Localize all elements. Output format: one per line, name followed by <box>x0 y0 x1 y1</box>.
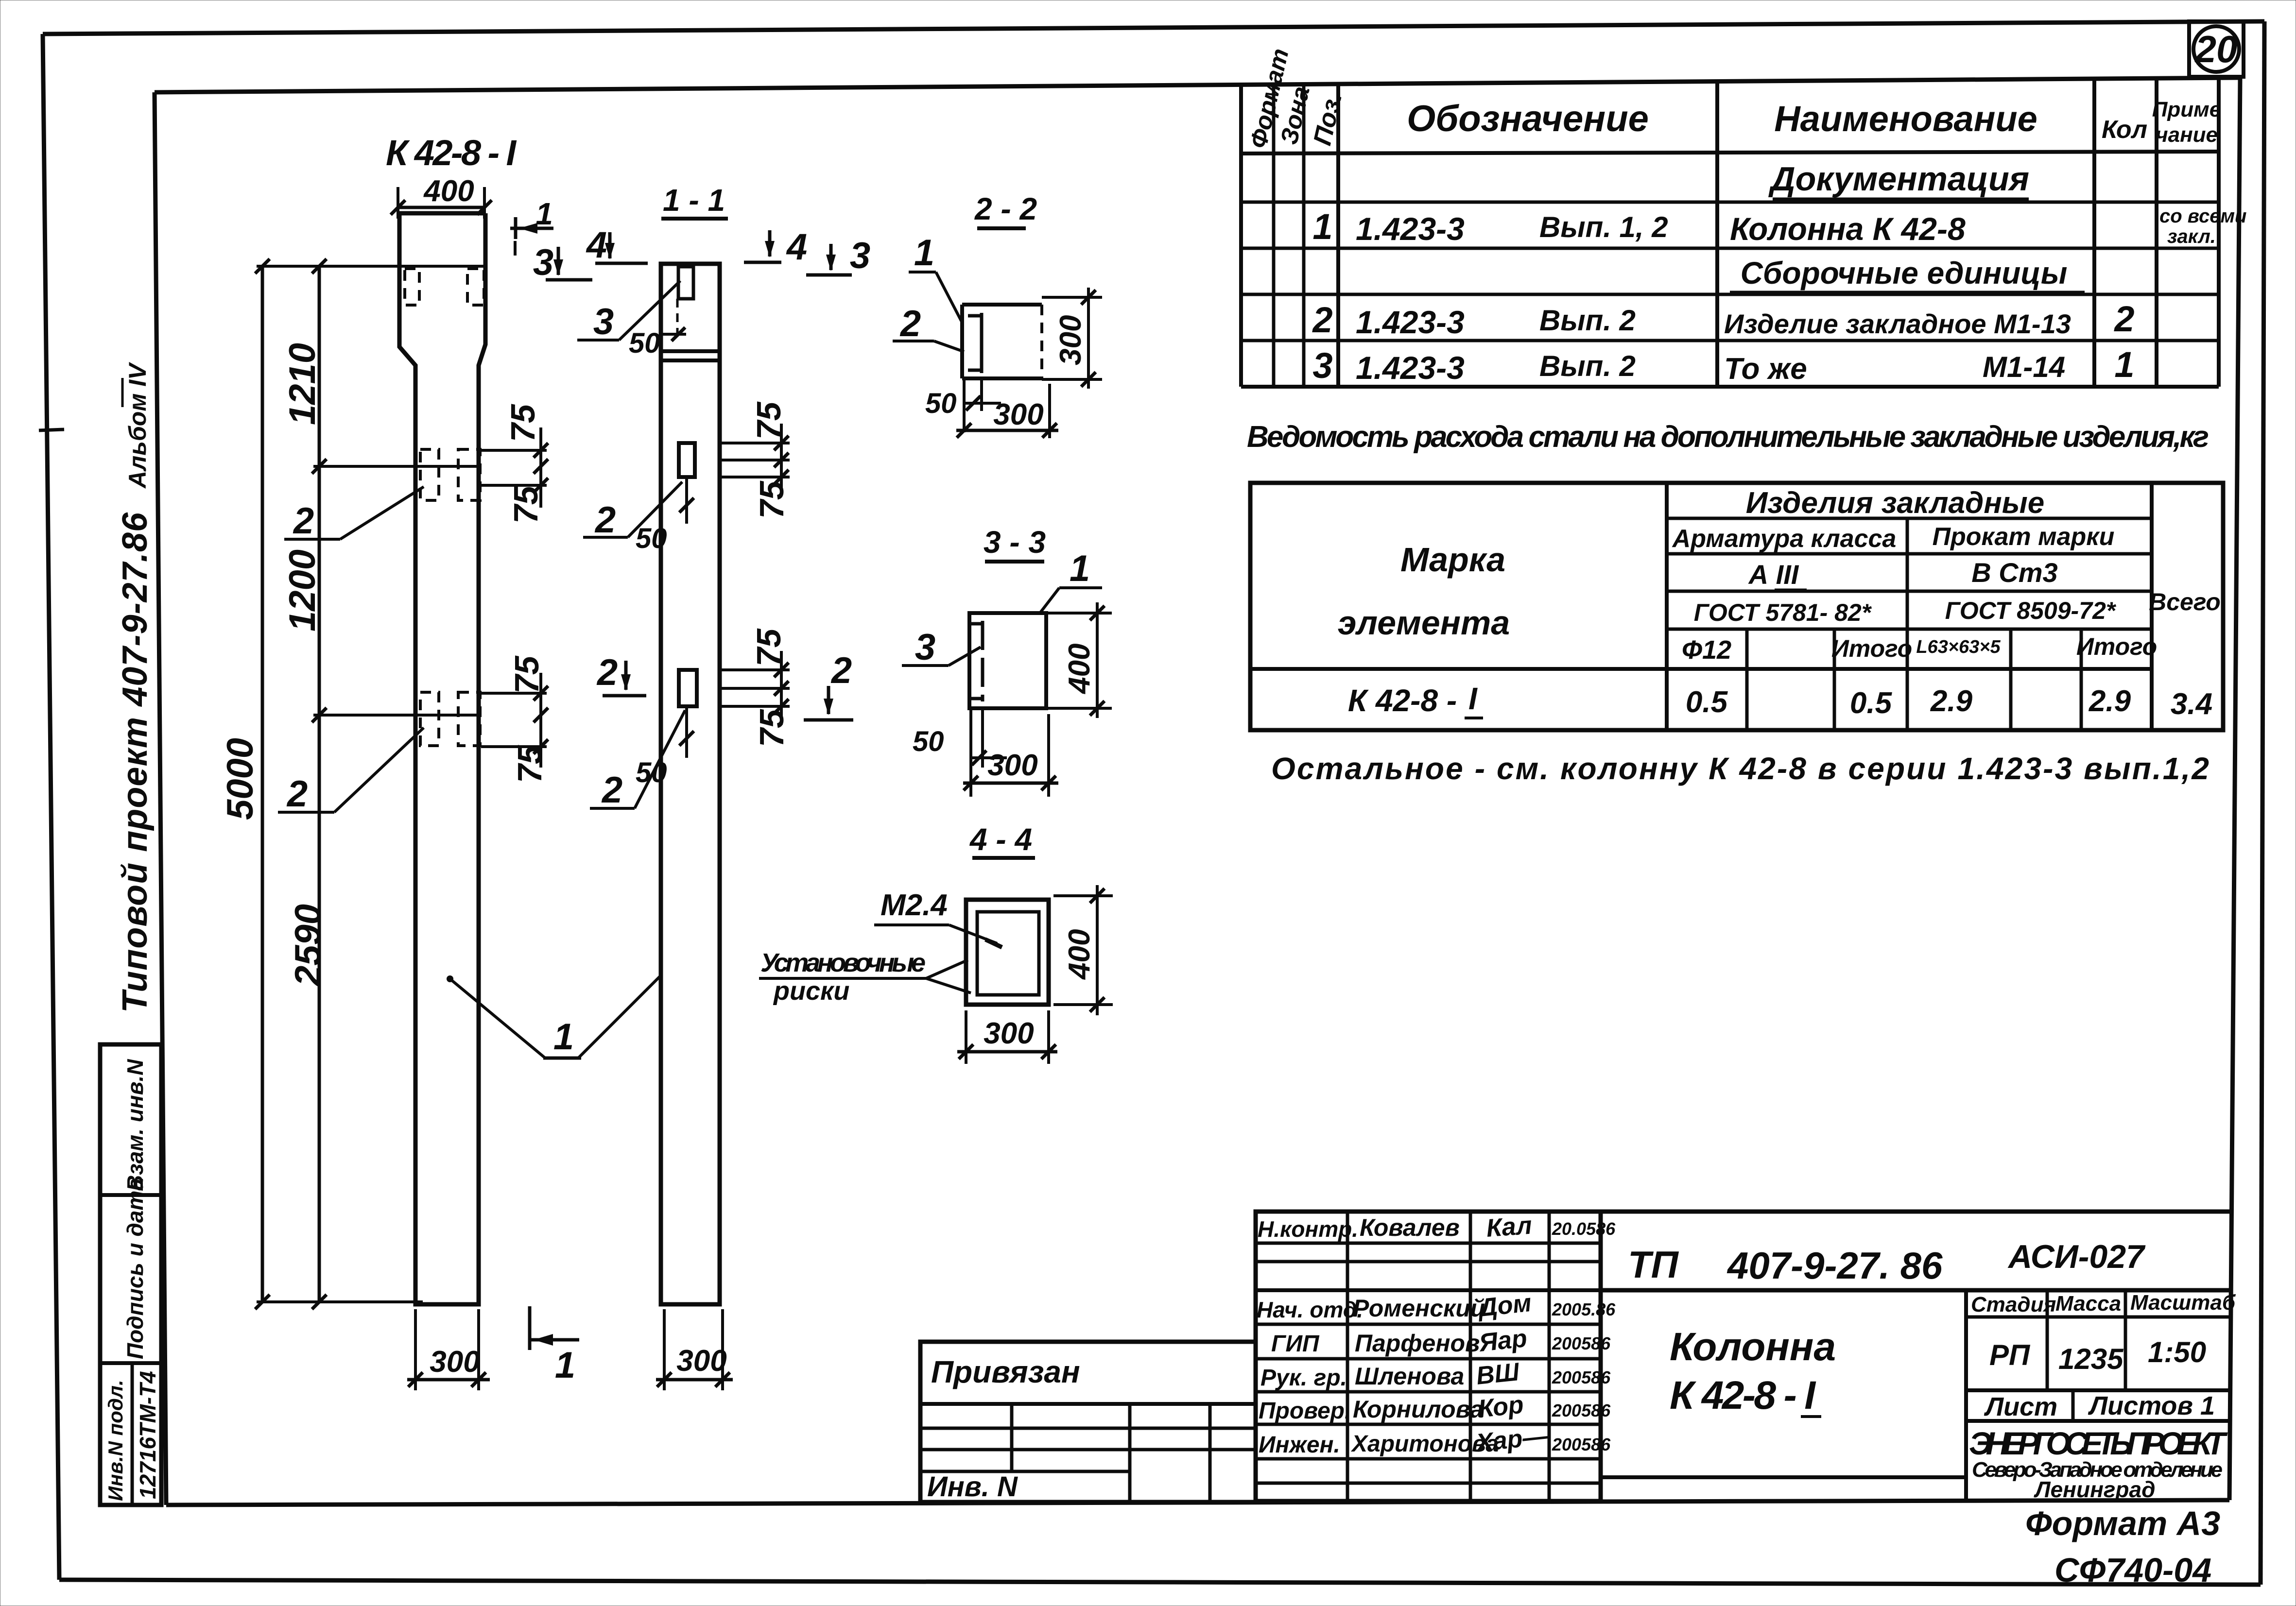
svg-text:4 - 4: 4 - 4 <box>969 822 1032 857</box>
section 1-1 label <box>661 183 728 219</box>
steel table <box>1250 483 2223 730</box>
svg-text:Документация: Документация <box>1768 160 2029 198</box>
svg-text:2: 2 <box>899 303 921 344</box>
svg-text:1.423-3: 1.423-3 <box>1356 211 1465 247</box>
svg-text:1: 1 <box>553 1016 574 1058</box>
svg-text:Яар: Яар <box>1477 1324 1528 1357</box>
signature row ГИП Парфенов <box>1271 1324 1611 1357</box>
svg-text:Ленинград: Ленинград <box>2034 1477 2156 1502</box>
svg-text:2: 2 <box>830 650 852 691</box>
dim 300 bottom section 2-2 <box>956 384 1058 438</box>
svg-text:Изделие закладное М1-13: Изделие закладное М1-13 <box>1724 308 2071 339</box>
привязан box <box>920 1342 1256 1502</box>
svg-text:300: 300 <box>984 1017 1034 1050</box>
dim 300 right section 2-2 <box>1042 288 1102 389</box>
leader 2 mid section 1-1 <box>583 482 682 541</box>
svg-text:300: 300 <box>993 398 1043 431</box>
svg-text:75: 75 <box>508 655 546 694</box>
svg-text:Итого: Итого <box>1831 635 1912 662</box>
svg-text:12716ТМ-Т4: 12716ТМ-Т4 <box>135 1371 160 1499</box>
svg-text:4: 4 <box>586 224 607 266</box>
svg-text:ЭНЕРГОСЕТЬПРОЕКТ: ЭНЕРГОСЕТЬПРОЕКТ <box>1969 1425 2228 1461</box>
dimension 400 top <box>391 174 492 219</box>
dimension line 1210 1200 2590 <box>282 259 329 1309</box>
svg-text:Ведомость расхода стали на доп: Ведомость расхода стали на дополнительны… <box>1247 420 2209 454</box>
svg-text:2005.86: 2005.86 <box>1552 1299 1616 1319</box>
svg-text:0.5: 0.5 <box>1686 685 1728 719</box>
svg-text:Типовой проект 407-9-27.86: Типовой проект 407-9-27.86 <box>116 512 155 1013</box>
svg-text:Масштаб: Масштаб <box>2130 1291 2236 1315</box>
steel table data row К 42-8-I <box>1348 681 2212 721</box>
dim 300 bottom section 3-3 <box>963 714 1058 797</box>
svg-text:4: 4 <box>786 226 807 268</box>
svg-text:Альбом IV: Альбом IV <box>124 362 151 489</box>
leader 3 section 1-1 <box>577 281 680 342</box>
svg-text:М1-14: М1-14 <box>1983 351 2065 383</box>
section mark 4 left <box>586 224 648 266</box>
svg-text:со всеми: со всеми <box>2159 205 2246 227</box>
svg-text:Всего: Всего <box>2149 588 2221 615</box>
svg-text:Наименование: Наименование <box>1774 99 2037 139</box>
svg-text:Марка: Марка <box>1400 541 1505 579</box>
svg-text:Лист: Лист <box>1984 1392 2057 1421</box>
leader 2 mid level front view <box>284 487 424 542</box>
section mark 2 right <box>804 650 853 720</box>
svg-text:К 42-8 -: К 42-8 - <box>1348 683 1457 718</box>
svg-text:2 - 2: 2 - 2 <box>974 191 1037 226</box>
embedded plate top left (dashed) <box>405 269 419 305</box>
svg-text:I: I <box>1468 681 1478 716</box>
leader 2 lower level front view <box>278 728 424 815</box>
svg-text:Подпись и дата: Подпись и дата <box>122 1178 148 1359</box>
svg-text:2: 2 <box>286 773 308 815</box>
svg-text:Обозначение: Обозначение <box>1407 98 1649 139</box>
svg-text:Формат А3: Формат А3 <box>2025 1504 2220 1542</box>
level line bottom <box>257 1300 423 1303</box>
section 1-1 column outline <box>661 264 720 1304</box>
svg-text:АСИ-027: АСИ-027 <box>2007 1238 2146 1275</box>
svg-text:2: 2 <box>293 500 314 542</box>
svg-text:3: 3 <box>593 301 614 342</box>
svg-text:2: 2 <box>594 499 616 541</box>
svg-text:200586: 200586 <box>1552 1333 1611 1353</box>
dim 75 75 at mid level <box>479 404 548 524</box>
section 3-3 body <box>969 613 1046 708</box>
svg-text:Вып. 1, 2: Вып. 1, 2 <box>1539 211 1668 243</box>
svg-text:Ф12: Ф12 <box>1682 635 1731 665</box>
svg-text:50: 50 <box>925 388 957 419</box>
dim 75 75 at lower level <box>479 655 549 783</box>
svg-text:Н.контр.: Н.контр. <box>1258 1216 1358 1242</box>
section 1-1 top embedded plate <box>677 267 693 340</box>
svg-text:Кор: Кор <box>1477 1390 1525 1423</box>
svg-text:1: 1 <box>555 1345 575 1386</box>
svg-text:Ковалев: Ковалев <box>1360 1214 1460 1241</box>
svg-text:Поз.: Поз. <box>1308 89 1347 148</box>
svg-text:Стадия: Стадия <box>1971 1293 2056 1316</box>
svg-text:1: 1 <box>914 232 934 273</box>
svg-text:ГОСТ 5781- 82*: ГОСТ 5781- 82* <box>1694 599 1872 626</box>
svg-text:1: 1 <box>1312 206 1332 247</box>
svg-text:Нач. отд.: Нач. отд. <box>1257 1297 1363 1322</box>
организация ЭНЕРГОСЕТЬПРОЕКТ <box>1969 1425 2228 1502</box>
sheet number box <box>2189 21 2244 77</box>
dim 300 bottom section 1-1 <box>656 1309 733 1390</box>
dim 75 75 mid section 1-1 <box>720 401 791 519</box>
section 2-2 body <box>962 305 1042 378</box>
svg-text:закл.: закл. <box>2167 226 2216 247</box>
svg-text:400: 400 <box>1063 644 1096 695</box>
svg-text:Хар—: Хар— <box>1473 1422 1550 1458</box>
section 1-1 lower plate <box>679 670 697 706</box>
svg-text:ТП: ТП <box>1628 1243 1679 1286</box>
svg-text:1200: 1200 <box>282 549 323 632</box>
sheet number circle 20 <box>2193 26 2239 72</box>
section mark 2 left <box>596 652 646 696</box>
dim 75 75 lower section 1-1 <box>720 628 791 747</box>
svg-text:2: 2 <box>2113 299 2134 339</box>
svg-text:ГОСТ 8509-72*: ГОСТ 8509-72* <box>1945 597 2117 624</box>
leader М2.4 <box>874 888 1002 947</box>
leader 2 section 2-2 <box>893 303 964 352</box>
svg-text:Приме: Приме <box>2152 98 2221 121</box>
svg-text:Листов 1: Листов 1 <box>2088 1391 2215 1420</box>
svg-text:3: 3 <box>915 627 935 668</box>
signature row Н.контр Ковалев <box>1258 1212 1616 1243</box>
svg-text:300: 300 <box>987 749 1037 782</box>
dimension line 5000 <box>220 259 270 1309</box>
title Колонна К 42-8-I <box>1670 1325 1836 1418</box>
specification table top right <box>1241 79 2219 387</box>
svg-text:ГИП: ГИП <box>1271 1331 1320 1357</box>
section mark 3 left <box>533 242 592 283</box>
signature table <box>1256 1212 1601 1501</box>
stadia massa masshtab values <box>1989 1336 2206 1375</box>
svg-text:Взам. инв.N: Взам. инв.N <box>122 1059 148 1191</box>
svg-text:Остальное - см. колонну К 42-: Остальное - см. колонну К 42-8 в серии 1… <box>1271 751 2209 786</box>
svg-text:Шленова: Шленова <box>1355 1363 1464 1390</box>
svg-text:3: 3 <box>1312 345 1332 386</box>
signature row Инжен Харитонова <box>1259 1422 1611 1458</box>
section 1-1 step joint double line <box>661 351 720 360</box>
embedded plate top right (dashed) <box>467 269 484 305</box>
stadia massa masshtab header <box>1966 1290 2236 1390</box>
svg-text:1: 1 <box>2114 344 2134 385</box>
leader 1 to both columns <box>447 975 661 1058</box>
steel table header А III <box>1748 559 1807 590</box>
signature row Провер Корнилова <box>1259 1390 1611 1424</box>
dim 300 bottom section 4-4 <box>957 1010 1057 1064</box>
svg-text:1235: 1235 <box>2058 1343 2124 1375</box>
spec row 1 Колонна К 42-8 <box>1312 205 2246 247</box>
svg-text:Вып. 2: Вып. 2 <box>1539 304 1636 337</box>
svg-text:Инв.N подл.: Инв.N подл. <box>104 1380 127 1501</box>
svg-text:200586: 200586 <box>1552 1367 1611 1387</box>
section 2-2 label <box>974 191 1037 228</box>
spec row Документация <box>1768 160 2029 199</box>
svg-text:75: 75 <box>750 628 788 666</box>
label Установочные риски <box>759 948 971 1006</box>
level line mid <box>313 465 481 468</box>
section mark 3 right <box>806 235 870 276</box>
svg-text:М2.4: М2.4 <box>880 888 948 922</box>
svg-text:1:50: 1:50 <box>2148 1336 2206 1368</box>
dim 50 section 2-2 <box>925 378 1001 432</box>
svg-text:1210: 1210 <box>282 343 323 425</box>
section mark 1 bottom <box>530 1306 579 1386</box>
dim 50 lower section 1-1 <box>636 706 694 788</box>
spec row Сборочные единицы <box>1730 256 2085 292</box>
svg-text:Масса: Масса <box>2055 1292 2121 1316</box>
svg-text:То же: То же <box>1724 352 1807 386</box>
svg-text:75: 75 <box>753 480 791 519</box>
section 4-4 label <box>969 822 1035 858</box>
svg-text:300: 300 <box>430 1345 480 1379</box>
svg-text:400: 400 <box>423 174 474 208</box>
dim 300 bottom front view <box>407 1309 490 1390</box>
svg-text:75: 75 <box>750 401 788 440</box>
svg-text:Корнилова: Корнилова <box>1353 1396 1484 1423</box>
svg-text:20.0586: 20.0586 <box>1552 1219 1616 1239</box>
svg-text:Вып. 2: Вып. 2 <box>1539 350 1636 382</box>
svg-text:Колонна К 42-8: Колонна К 42-8 <box>1730 211 1966 247</box>
svg-text:Колонна: Колонна <box>1670 1325 1836 1369</box>
svg-text:Сборочные единицы: Сборочные единицы <box>1741 256 2068 290</box>
svg-text:Прокат марки: Прокат марки <box>1933 523 2115 551</box>
embedded plates lower level (dashed) <box>420 692 439 746</box>
svg-text:В Ст3: В Ст3 <box>1971 557 2057 588</box>
section 1-1 mid plate <box>679 443 695 477</box>
svg-text:Парфенов: Парфенов <box>1355 1330 1480 1357</box>
svg-text:Итого: Итого <box>2076 633 2157 660</box>
svg-text:2: 2 <box>1312 300 1332 340</box>
steel table header Марка элемента <box>1338 541 1510 642</box>
section 4-4 body outer <box>966 900 1049 1005</box>
svg-text:3 - 3: 3 - 3 <box>984 525 1046 560</box>
svg-text:3: 3 <box>850 235 870 276</box>
svg-text:75: 75 <box>753 709 791 747</box>
svg-text:50: 50 <box>629 327 660 359</box>
svg-text:Изделия закладные: Изделия закладные <box>1746 486 2045 520</box>
svg-text:К 42-8 - I: К 42-8 - I <box>1670 1373 1816 1418</box>
title block main area <box>1601 1212 2230 1501</box>
svg-text:Провер.: Провер. <box>1259 1398 1351 1424</box>
svg-text:Дом: Дом <box>1476 1289 1533 1322</box>
dim 50 top section <box>629 327 686 359</box>
section 3-3 embedded channel <box>971 621 983 701</box>
dim 50 section 3-3 <box>913 708 1007 797</box>
svg-text:75: 75 <box>507 485 545 524</box>
svg-text:1: 1 <box>1070 548 1090 589</box>
dim 50 mid section 1-1 <box>636 477 694 554</box>
svg-text:2.9: 2.9 <box>1930 684 1973 718</box>
svg-text:2.9: 2.9 <box>2089 684 2131 718</box>
svg-text:200586: 200586 <box>1552 1435 1611 1454</box>
leader 1 section 3-3 <box>1040 548 1102 613</box>
svg-text:1.423-3: 1.423-3 <box>1356 350 1465 386</box>
svg-text:1: 1 <box>535 196 553 231</box>
svg-text:Кол: Кол <box>2102 116 2147 144</box>
svg-text:чание: чание <box>2156 123 2218 147</box>
svg-text:5000: 5000 <box>220 738 261 820</box>
section 3-3 label <box>984 525 1046 562</box>
svg-text:СФ740-04: СФ740-04 <box>2054 1551 2211 1589</box>
svg-text:Рук. гр.: Рук. гр. <box>1260 1365 1347 1391</box>
svg-text:200586: 200586 <box>1552 1401 1611 1420</box>
svg-text:20: 20 <box>2194 28 2238 70</box>
svg-text:1 - 1: 1 - 1 <box>663 183 725 218</box>
leader 1 section 2-2 <box>909 232 962 323</box>
svg-text:2: 2 <box>601 769 622 811</box>
signature row Нач.отд Роменский <box>1257 1289 1616 1322</box>
svg-text:Привязан: Привязан <box>931 1354 1080 1389</box>
svg-text:3: 3 <box>533 242 553 283</box>
svg-text:Инв. N: Инв. N <box>927 1471 1018 1503</box>
embedded plates mid level (dashed) <box>420 449 439 500</box>
svg-text:риски: риски <box>773 976 849 1006</box>
svg-text:Кал: Кал <box>1485 1212 1533 1243</box>
svg-text:Установочные: Установочные <box>760 948 926 977</box>
svg-text:2: 2 <box>596 652 618 693</box>
section 4-4 body inner <box>977 912 1039 995</box>
section mark 1 top left <box>510 196 553 256</box>
svg-text:Инжен.: Инжен. <box>1259 1432 1340 1458</box>
spec row 2 изделие закладное М1-13 <box>1312 299 2134 340</box>
лист листов row <box>1966 1390 2230 1421</box>
svg-text:300: 300 <box>1054 315 1088 365</box>
svg-text:ВШ: ВШ <box>1475 1358 1521 1390</box>
spec row 3 То же М1-14 <box>1312 344 2134 386</box>
svg-text:РП: РП <box>1989 1339 2031 1371</box>
svg-text:50: 50 <box>636 523 667 554</box>
front view column outline <box>399 213 485 1304</box>
dim 400 right section 4-4 <box>1053 885 1113 1015</box>
level line lower <box>313 714 481 717</box>
svg-text:407-9-27. 86: 407-9-27. 86 <box>1726 1244 1943 1287</box>
svg-text:50: 50 <box>636 757 667 788</box>
left margin vertical project label <box>39 362 155 1013</box>
svg-text:2590: 2590 <box>288 904 329 987</box>
dim 400 right section 3-3 <box>1046 602 1112 718</box>
svg-text:400: 400 <box>1063 929 1096 980</box>
svg-text:1.423-3: 1.423-3 <box>1356 304 1465 340</box>
svg-text:300: 300 <box>676 1344 726 1378</box>
leader 2 lower section 1-1 <box>590 710 685 811</box>
left accounting strip table <box>100 1044 161 1505</box>
svg-text:L63×63×5: L63×63×5 <box>1916 637 2001 657</box>
svg-text:элемента: элемента <box>1338 604 1510 642</box>
level line datum top <box>257 265 487 268</box>
svg-text:75: 75 <box>504 404 542 442</box>
section mark 4 right <box>744 226 807 268</box>
svg-text:0.5: 0.5 <box>1850 686 1893 720</box>
leader 3 section 3-3 <box>902 627 981 668</box>
section 2-2 embedded channel <box>968 313 982 373</box>
signature row Рук.гр Шленова <box>1260 1358 1611 1391</box>
svg-text:К 42-8 - I: К 42-8 - I <box>386 133 517 173</box>
svg-text:50: 50 <box>913 726 944 757</box>
svg-text:75: 75 <box>511 745 549 783</box>
svg-text:Роменский: Роменский <box>1353 1295 1485 1322</box>
svg-text:3.4: 3.4 <box>2171 687 2212 721</box>
svg-text:А III: А III <box>1748 559 1799 590</box>
svg-text:Арматура класса: Арматура класса <box>1672 525 1897 553</box>
